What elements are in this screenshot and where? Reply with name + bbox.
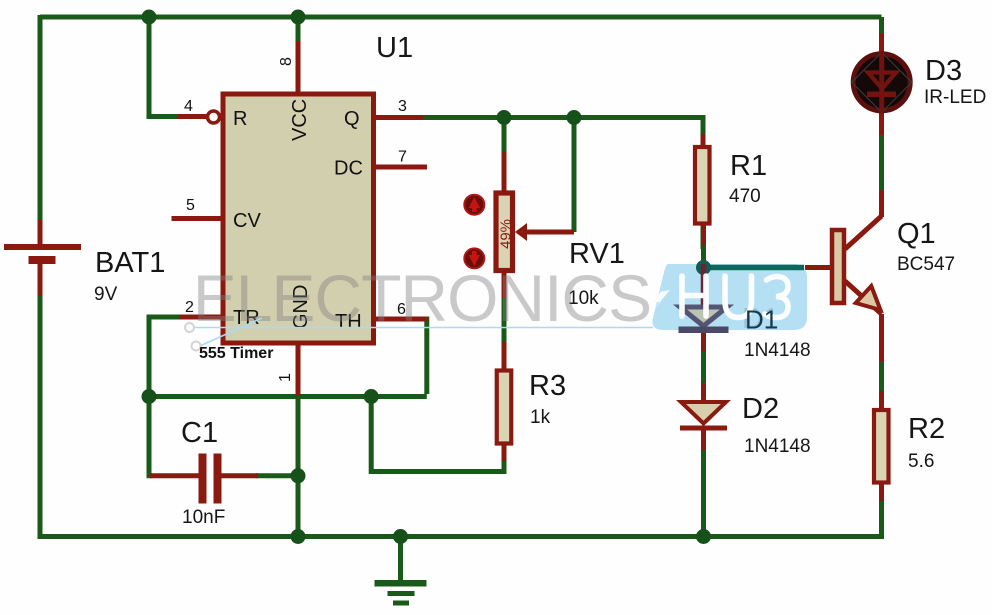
svg-text:555 Timer: 555 Timer (199, 345, 273, 362)
watermark circle 1 (185, 323, 194, 332)
emitter diagonal (845, 281, 882, 314)
wire tr pin2 to left vertical (149, 315, 181, 320)
svg-text:7: 7 (398, 149, 407, 166)
wire left vertical pin2 down (149, 315, 152, 476)
rv1 wiper lead (523, 230, 574, 235)
r2 bottom lead (879, 482, 884, 501)
collector vertical (879, 190, 884, 217)
watermark callout line (193, 327, 653, 329)
r1 top lead (701, 134, 706, 147)
pin 1 stub (296, 343, 301, 396)
svg-text:4: 4 (184, 98, 193, 115)
wire battery left vertical (38, 15, 43, 222)
diode D1 (680, 303, 811, 361)
wire bottom rail (38, 534, 882, 539)
wire rv1 wiper branch (572, 118, 577, 233)
pin 4 stub with bubble (178, 114, 207, 119)
wire c1 right to pin1 net (256, 473, 298, 478)
resistor R3 (497, 370, 566, 444)
led bottom lead (879, 110, 884, 135)
svg-text:IR-LED: IR-LED (924, 87, 986, 108)
svg-text:VCC: VCC (289, 99, 311, 141)
potentiometer RV1 (464, 193, 625, 309)
svg-text:R3: R3 (529, 370, 566, 402)
svg-text:1N4148: 1N4148 (744, 436, 811, 457)
node pin1 / bottom rail (291, 529, 306, 544)
wire r3 bottom to node (371, 397, 504, 472)
pin 6 stub (375, 317, 428, 322)
svg-text:BAT1: BAT1 (95, 247, 165, 279)
r1 bottom lead (701, 224, 706, 245)
r2 top lead (879, 391, 884, 410)
svg-text:49%: 49% (498, 219, 515, 249)
svg-text:DC: DC (334, 158, 363, 180)
svg-text:R2: R2 (908, 413, 945, 445)
watermark circle 2 (192, 342, 201, 351)
red pin stubs (40, 33, 882, 501)
wire rv1 top branch (502, 118, 507, 155)
svg-text:Q1: Q1 (897, 218, 936, 250)
LED D3 (852, 52, 987, 112)
lightning bolt (648, 277, 673, 317)
ground (375, 580, 427, 606)
pin4 bubble (208, 111, 220, 123)
svg-text:BC547: BC547 (897, 254, 955, 275)
svg-text:U1: U1 (376, 32, 413, 64)
pin 2 stub (179, 315, 221, 320)
resistor R1 (695, 147, 767, 224)
svg-text:C1: C1 (181, 417, 218, 449)
wire th pin6 down (421, 319, 427, 394)
node top rail / reset (142, 10, 157, 25)
svg-text:9V: 9V (94, 284, 118, 305)
d1 stub under box (701, 264, 707, 308)
emitter arrowhead (856, 286, 881, 310)
node pin3 / rv1 (497, 110, 512, 125)
pin 8 stub (296, 41, 301, 92)
transistor Q1 (832, 216, 955, 314)
hub letter U (725, 276, 752, 318)
d1 slate triangle under box (680, 307, 727, 326)
node top rail / vcc (291, 10, 306, 25)
led top lead (879, 33, 884, 54)
node pin3 / wiper (567, 110, 582, 125)
led diode symbol (879, 52, 884, 112)
svg-text:D3: D3 (925, 55, 962, 87)
svg-text:Q: Q (344, 108, 360, 130)
svg-text:R: R (233, 108, 247, 130)
wire pin3 output horizontal (421, 118, 703, 250)
wire top rail (38, 15, 882, 580)
d1 anode lead (701, 262, 706, 308)
svg-text:1: 1 (277, 373, 294, 382)
wire d2 to bottom rail (701, 448, 706, 539)
battery top lead (38, 220, 43, 245)
wire ground stem (398, 537, 403, 581)
svg-text:1k: 1k (530, 407, 551, 428)
wire gnd net horizontal (149, 394, 427, 399)
node gnd-net left (142, 389, 157, 404)
base wire teal under box (702, 265, 804, 271)
wire led bottom to collector (879, 133, 884, 192)
collector diagonal (845, 216, 882, 249)
led diamond (852, 52, 912, 112)
r3 bottom lead (502, 444, 507, 461)
pin 7 stub (375, 165, 427, 170)
rv1 up button (464, 195, 484, 215)
node ground (393, 529, 408, 544)
resistor R2 (874, 410, 945, 483)
wire battery bottom vertical (38, 294, 43, 539)
svg-text:5: 5 (186, 197, 195, 214)
svg-text:ELECTRONICS: ELECTRONICS (193, 261, 651, 335)
svg-text:CV: CV (233, 210, 261, 232)
d2 anode lead (701, 383, 706, 402)
pin 5 stub (172, 216, 222, 221)
svg-text:470: 470 (729, 186, 761, 207)
svg-text:R1: R1 (730, 150, 767, 182)
wire pin1 down to bottom rail (296, 394, 301, 539)
wire r1 bottom to base node (701, 243, 706, 263)
base stub (805, 265, 830, 270)
wire r2 bottom to rail (879, 499, 884, 539)
c1 left lead (150, 473, 199, 478)
wire led top from rail (879, 17, 884, 35)
svg-text:D2: D2 (742, 393, 779, 425)
watermark hub box (648, 260, 808, 335)
rv1 wiper arrowhead (515, 223, 527, 241)
wire emitter to r2 (879, 360, 884, 393)
d2 cathode lead (701, 429, 706, 450)
pin 3 stub (375, 115, 423, 120)
svg-text:3: 3 (398, 98, 407, 115)
battery bottom lead (38, 263, 43, 296)
rv1 down button (464, 248, 484, 268)
node d2 / bottom rail (696, 529, 711, 544)
capacitor C1 (181, 417, 225, 528)
wire vcc branch from top rail to pin8 (296, 17, 301, 43)
rv1 bottom lead (502, 272, 507, 298)
svg-text:5.6: 5.6 (908, 451, 934, 472)
node gnd-net r3 (364, 389, 379, 404)
watermark callout diagonal (201, 318, 262, 346)
diode D2 (680, 393, 811, 457)
rv1 top lead (502, 152, 507, 192)
battery BAT1 (4, 244, 165, 305)
wire d1 d2 middle (701, 349, 706, 385)
hub letter H (682, 276, 788, 318)
svg-text:10nF: 10nF (182, 507, 225, 528)
r3 top lead (502, 342, 507, 370)
node base teal (696, 260, 711, 275)
svg-text:1N4148: 1N4148 (744, 340, 811, 361)
svg-text:D1: D1 (745, 305, 778, 335)
c1 right lead (220, 473, 258, 478)
op-amp U1 555 timer body (184, 32, 413, 382)
wire rv1 bottom to r3 (502, 296, 507, 344)
d1 cathode lead (701, 330, 706, 351)
wire reset branch from top rail to pin4 (149, 17, 180, 117)
svg-text:8: 8 (278, 57, 295, 66)
hub letter B (765, 277, 788, 318)
emitter vertical to r2 (879, 314, 884, 362)
node c1 / pin1 (291, 468, 306, 483)
